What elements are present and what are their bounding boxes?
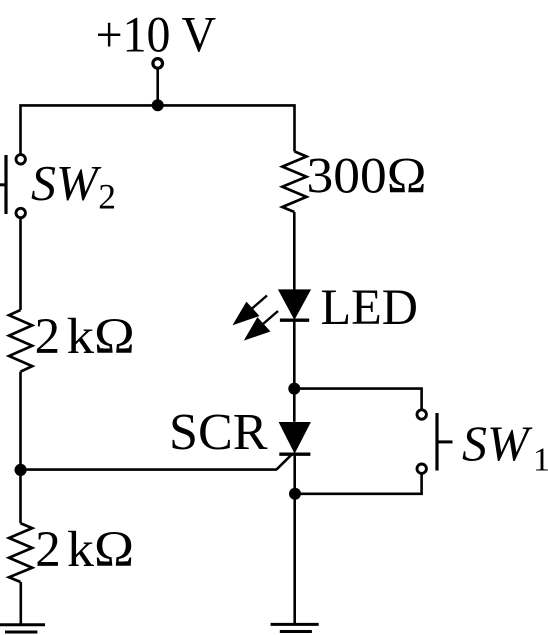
- resistor R1 2kOhm zigzag: [9, 310, 32, 372]
- switch SW2 top terminal circle: [16, 155, 25, 164]
- thyristor SCR gate diagonal: [277, 453, 293, 469]
- node C junction dot: [289, 488, 301, 500]
- diode LED cathode bar: [280, 319, 309, 322]
- svg-text:SW: SW: [462, 415, 533, 471]
- switch SW1 actuator stem: [437, 440, 453, 443]
- ground right: [271, 624, 319, 631]
- node junction dot on top rail: [152, 99, 164, 111]
- svg-text:300Ω: 300Ω: [307, 149, 427, 205]
- wire R2 bottom to left ground: [19, 582, 22, 625]
- switch SW2 actuator stem: [0, 183, 6, 186]
- switch SW2 bottom terminal circle: [16, 208, 25, 217]
- svg-text:LED: LED: [321, 279, 419, 335]
- wire SCR cathode through node C to right ground: [293, 454, 296, 624]
- wire from +10V terminal down to top rail: [156, 70, 159, 106]
- svg-text:2: 2: [35, 522, 61, 578]
- svg-text:kΩ: kΩ: [67, 309, 135, 365]
- svg-text:+10 V: +10 V: [96, 7, 217, 63]
- switch SW1 top terminal circle: [417, 410, 426, 419]
- svg-text:SW: SW: [31, 155, 102, 211]
- node A junction dot: [288, 383, 300, 395]
- wire R1 bottom through node B to resistor R2: [19, 372, 22, 524]
- resistor R2 2kOhm zigzag: [9, 523, 32, 582]
- thyristor SCR triangle: [279, 422, 311, 454]
- svg-text:kΩ: kΩ: [67, 522, 134, 578]
- svg-text:2: 2: [98, 177, 116, 217]
- svg-text:2: 2: [35, 309, 61, 365]
- thyristor SCR cathode bar: [279, 453, 310, 456]
- switch SW2 actuator bar: [4, 155, 7, 214]
- node +10V terminal circle: [153, 59, 163, 69]
- switch SW1 bottom terminal circle: [417, 464, 426, 473]
- svg-text:1: 1: [533, 441, 548, 478]
- node B junction dot: [15, 464, 27, 476]
- wire SW2 bottom to resistor R1: [19, 219, 22, 310]
- LED light arrow 2: [244, 311, 278, 341]
- wire R3 bottom to LED: [293, 212, 296, 291]
- wire node A to SW1 top: [294, 389, 421, 409]
- wire gate horizontal from node B to SCR gate: [21, 468, 278, 471]
- switch SW1 actuator bar: [435, 413, 438, 471]
- resistor R3 300 Ohm zigzag: [282, 151, 306, 212]
- wire node C to SW1 bottom: [295, 475, 422, 494]
- diode LED triangle: [278, 289, 311, 320]
- LED light arrow 1: [233, 296, 268, 326]
- ground left: [0, 625, 45, 632]
- wire top rail horizontal: [21, 105, 295, 153]
- wire LED to node A: [293, 320, 296, 422]
- svg-text:SCR: SCR: [169, 404, 268, 461]
